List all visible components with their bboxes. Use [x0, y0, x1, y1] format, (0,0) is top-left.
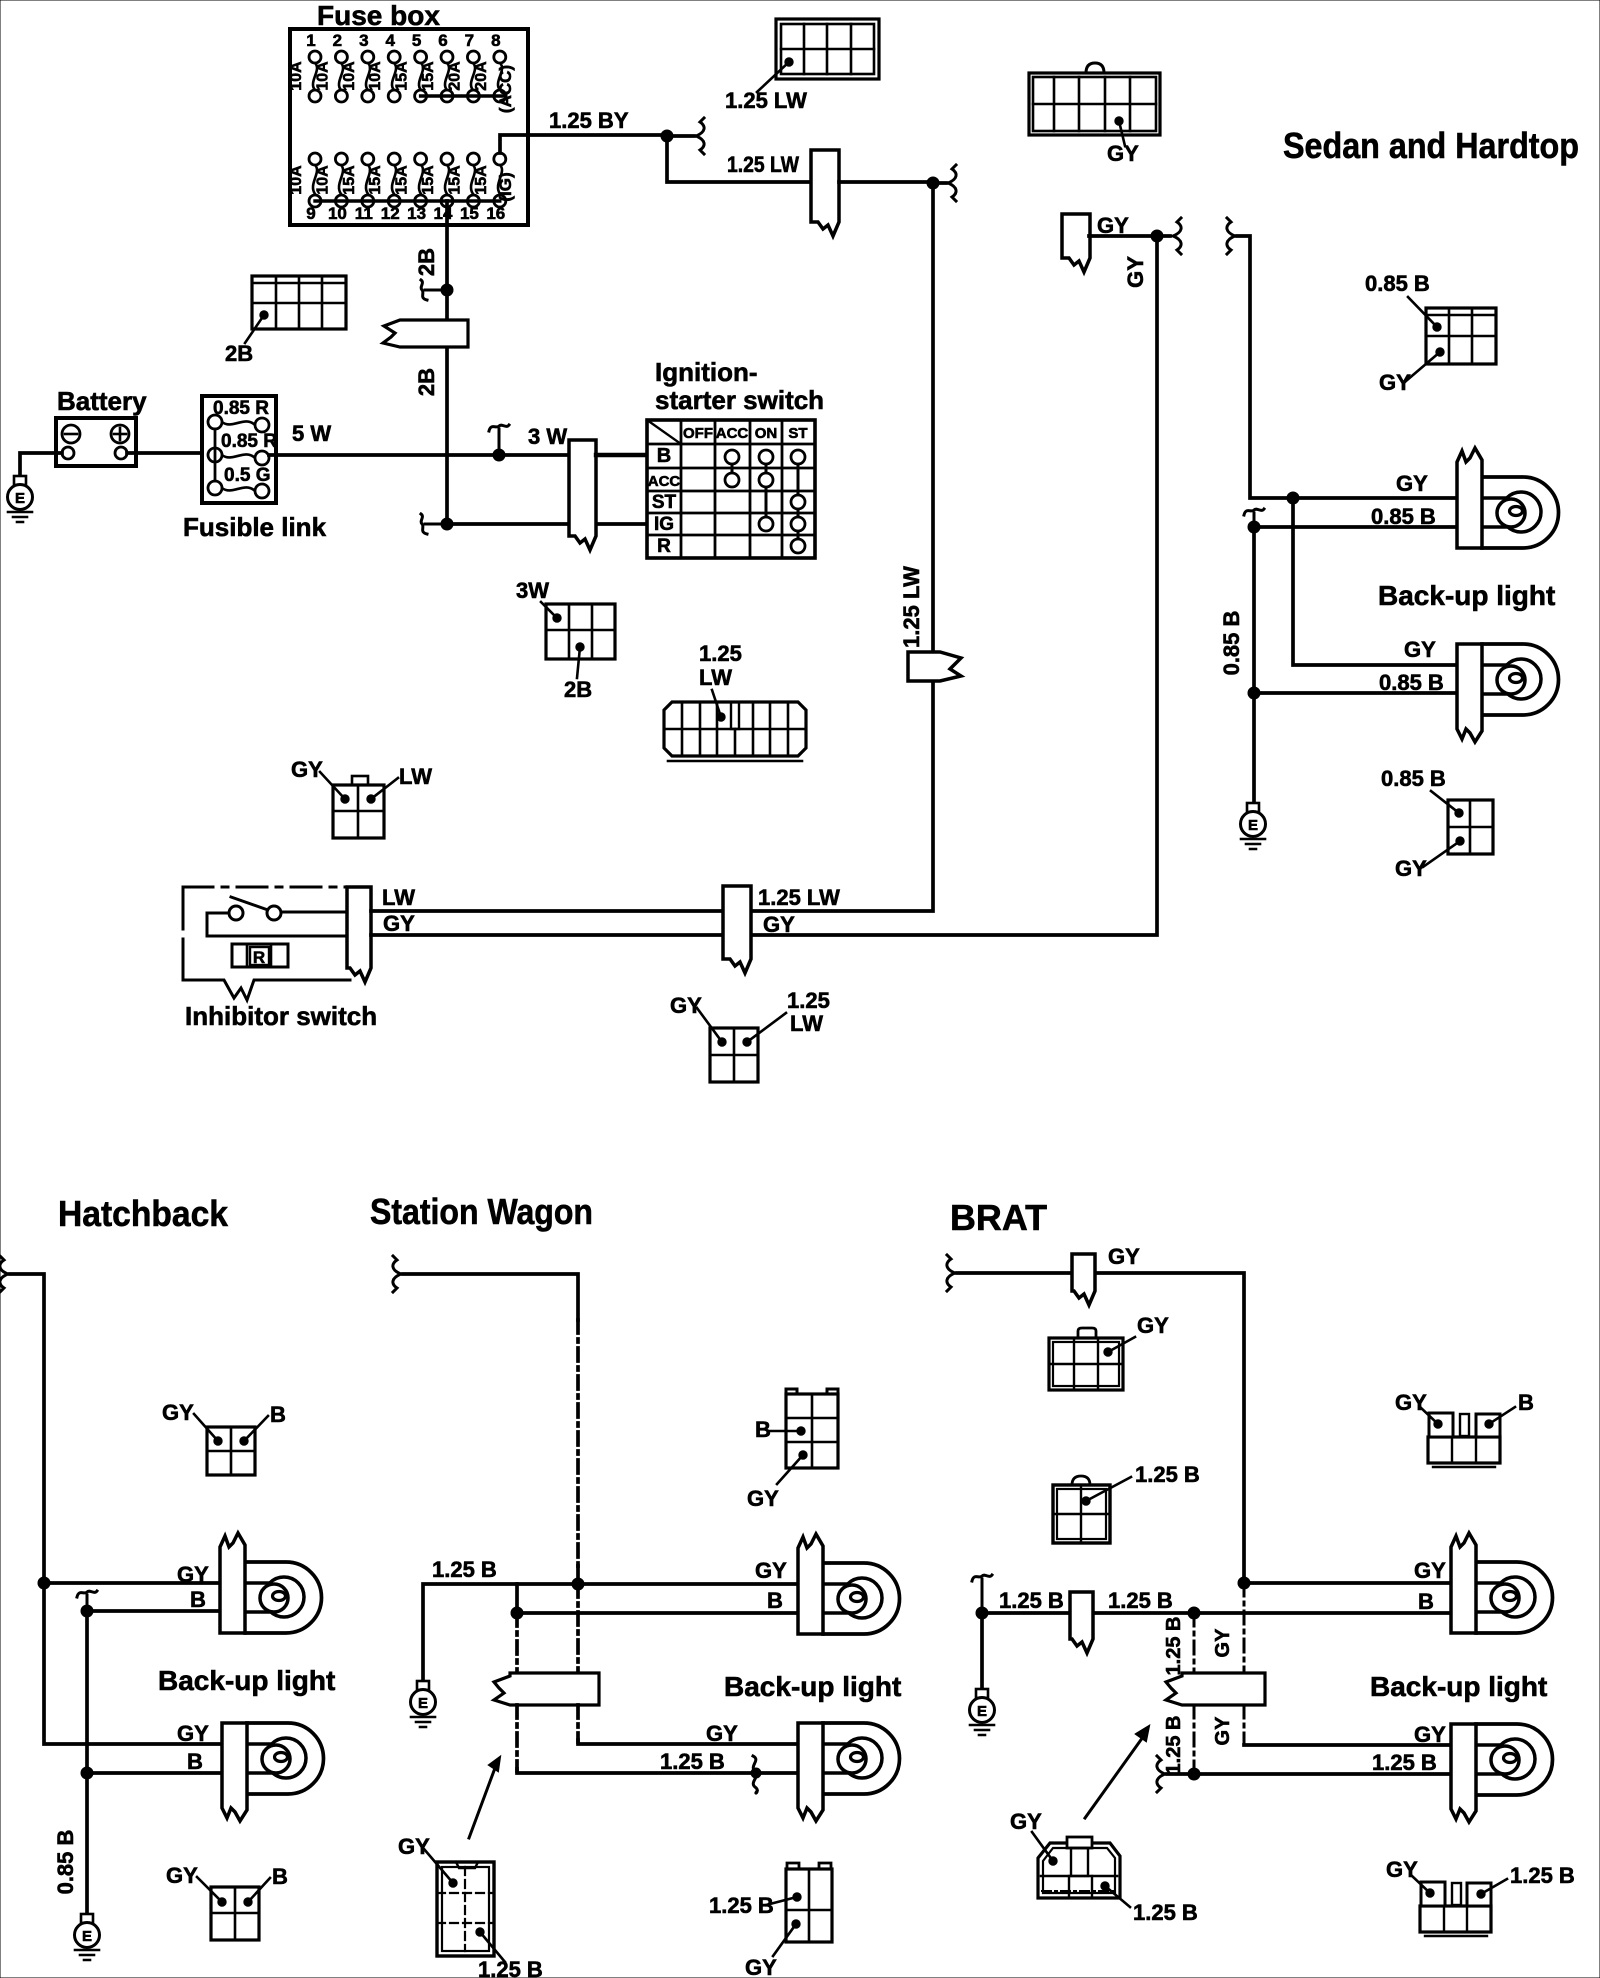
svg-text:Hatchback: Hatchback	[58, 1193, 229, 1234]
wire B to back-up light 1	[87, 1609, 222, 1613]
svg-text:10A: 10A	[367, 61, 384, 91]
svg-text:Back-up light: Back-up light	[1378, 580, 1555, 611]
fuse 10 (10A)	[314, 153, 347, 223]
wire GY to junction	[1089, 234, 1157, 238]
svg-text:10A: 10A	[288, 61, 305, 91]
fuse 12 (15A)	[367, 153, 400, 223]
svg-text:Battery: Battery	[57, 386, 147, 416]
ground E (battery)	[8, 476, 33, 522]
fuse bus (IG fuses 9-16)	[315, 199, 500, 202]
harness end brace	[1173, 218, 1181, 254]
svg-text:GY: GY	[291, 757, 323, 782]
svg-text:1.25 B: 1.25 B	[478, 1957, 543, 1978]
svg-text:GY: GY	[1108, 1244, 1140, 1269]
back-up light bulb 1 (sedan)	[1457, 448, 1559, 548]
svg-text:1.25 B: 1.25 B	[709, 1893, 774, 1918]
svg-text:3W: 3W	[516, 578, 549, 603]
svg-text:2B: 2B	[414, 248, 439, 276]
wire GY below flag to back-up light 2	[576, 1705, 580, 1742]
svg-text:OFF: OFF	[683, 425, 713, 442]
wire 0.85B to ground	[85, 1773, 89, 1914]
svg-text:15A: 15A	[394, 165, 411, 195]
wire 1.25B down (dash-dot)	[1193, 1613, 1196, 1675]
svg-text:1.25 B: 1.25 B	[1133, 1900, 1198, 1925]
connector lamp socket (BRAT lower)	[1038, 1837, 1120, 1898]
connector 2x3 (wagon lower-left)	[437, 1862, 494, 1956]
svg-text:1.25 B: 1.25 B	[1510, 1863, 1575, 1888]
svg-text:15A: 15A	[341, 165, 358, 195]
svg-text:20A: 20A	[446, 61, 463, 91]
wire GY wagon feed lower	[578, 1566, 800, 1584]
connector plug (GY/B BRAT)	[1428, 1413, 1500, 1467]
inhibitor switch R box	[232, 944, 288, 967]
svg-text:GY: GY	[1212, 1628, 1234, 1658]
fuse box outline	[290, 29, 528, 225]
svg-text:B: B	[767, 1588, 783, 1613]
connector 2x3 (wagon bottom-right)	[786, 1863, 832, 1942]
svg-text:GY: GY	[177, 1721, 209, 1746]
svg-text:8: 8	[491, 31, 500, 50]
tap hook at 2B junction	[421, 280, 445, 300]
wire GY sedan feed	[1237, 236, 1459, 498]
harness start brace (BRAT)	[947, 1255, 955, 1291]
fuse 2 (10A)	[314, 31, 347, 102]
wire GY to back-up light 2	[44, 1583, 222, 1744]
connector flag on LW riser (torn right)	[908, 652, 961, 681]
junction 1.25 LW	[927, 177, 939, 189]
wire 2B to ignition switch IG	[447, 522, 649, 526]
wire GY down (dash-dot)	[1243, 1583, 1246, 1675]
junction GY BRAT	[1238, 1577, 1250, 1589]
svg-text:Station Wagon: Station Wagon	[370, 1191, 593, 1232]
svg-text:1.25 LW: 1.25 LW	[727, 152, 799, 177]
harness start brace (hatchback)	[0, 1256, 8, 1292]
connector 2x2 (0.85B/GY sedan lower)	[1448, 800, 1493, 854]
svg-text:6: 6	[438, 31, 447, 50]
svg-text:B: B	[1418, 1589, 1434, 1614]
ground E (wagon)	[411, 1681, 436, 1727]
back-up light bulb 2 (BRAT)	[1451, 1724, 1553, 1822]
svg-text:ST: ST	[788, 425, 807, 442]
svg-text:GY: GY	[1107, 141, 1139, 166]
wire 1.25B to ground	[980, 1613, 984, 1689]
svg-text:15A: 15A	[394, 61, 411, 91]
svg-text:10A: 10A	[314, 61, 331, 91]
svg-text:15A: 15A	[367, 165, 384, 195]
fuse 6 (15A)	[420, 31, 453, 102]
back-up light bulb 1 (BRAT)	[1451, 1533, 1553, 1633]
fuse 4 (10A)	[367, 31, 400, 102]
svg-text:7: 7	[465, 31, 474, 50]
tap hook at 5W junction	[489, 425, 509, 453]
svg-text:GY: GY	[166, 1863, 198, 1888]
svg-text:GY: GY	[1137, 1313, 1169, 1338]
wire GY to back-up light 2	[1293, 498, 1459, 665]
svg-text:1.25 BY: 1.25 BY	[549, 108, 629, 133]
wire 1.25 LW down-right to connector flag	[667, 136, 812, 182]
inhibitor switch contacts	[229, 897, 281, 920]
svg-text:1.25 B: 1.25 B	[1108, 1588, 1173, 1613]
wire GY hatchback feed	[10, 1274, 222, 1583]
harness brace on 1.25B	[1157, 1756, 1165, 1792]
svg-text:B: B	[187, 1749, 203, 1774]
wire stub to harness end	[1157, 234, 1170, 238]
harness start brace (wagon)	[393, 1256, 401, 1292]
svg-text:Fusible link: Fusible link	[183, 512, 327, 542]
svg-text:Back-up light: Back-up light	[158, 1665, 335, 1696]
junction 1.25B lower	[1188, 1768, 1200, 1780]
wire 1.25B below flag	[1193, 1705, 1196, 1774]
svg-text:5 W: 5 W	[292, 421, 331, 446]
svg-text:IG: IG	[654, 514, 674, 535]
connector 3x2 (0.85B/GY sedan)	[1426, 308, 1496, 364]
connector 2x2 (GY/LW)	[333, 776, 384, 838]
junction BY/LW	[661, 130, 673, 142]
wire 2B from fuse 14 down to ignition branch	[445, 201, 449, 524]
svg-text:GY: GY	[1396, 471, 1428, 496]
wire 5 W fusible link to ignition switch	[269, 453, 649, 457]
svg-text:GY: GY	[763, 912, 795, 937]
fuse 15 (15A)	[446, 153, 479, 223]
back-up light bulb 2 (wagon)	[798, 1723, 900, 1821]
svg-text:GY: GY	[1395, 856, 1427, 881]
svg-text:B: B	[272, 1864, 288, 1889]
svg-text:2: 2	[333, 31, 342, 50]
svg-text:2B: 2B	[564, 677, 592, 702]
svg-text:GY: GY	[1212, 1716, 1234, 1746]
fuse 8 (20A)	[473, 31, 506, 102]
svg-text:1.25 B: 1.25 B	[999, 1588, 1064, 1613]
svg-text:GY: GY	[162, 1400, 194, 1425]
inhibitor switch outline	[183, 886, 350, 889]
svg-text:Fuse box: Fuse box	[317, 0, 440, 31]
wire 1.25 BY from fuse 16	[500, 135, 667, 153]
connector flag on 3W/2B (ignition)	[569, 440, 596, 550]
harness end brace	[696, 118, 704, 154]
svg-text:GY: GY	[706, 1721, 738, 1746]
wire GY wagon feed (dash-dot)	[576, 1320, 580, 1568]
svg-text:B: B	[755, 1417, 771, 1442]
svg-text:GY: GY	[747, 1486, 779, 1511]
svg-text:3: 3	[359, 31, 368, 50]
tap hook B hatchback	[77, 1591, 97, 1609]
junction 0.85B lower	[1248, 687, 1260, 699]
svg-text:0.85 R: 0.85 R	[213, 398, 269, 419]
svg-text:GY: GY	[745, 1955, 777, 1978]
svg-text:10A: 10A	[314, 165, 331, 195]
wire 1.25B to back-up light 2	[1167, 1772, 1453, 1776]
back-up light bulb 2 (hatchback)	[222, 1723, 324, 1821]
svg-text:GY: GY	[1010, 1809, 1042, 1834]
svg-text:LW: LW	[382, 885, 415, 910]
wire GY BRAT feed	[957, 1273, 1453, 1583]
tap hook 1.25B BRAT	[972, 1575, 992, 1611]
connector 2x2 (GY/B hatchback)	[207, 1427, 255, 1475]
harness start brace (sedan)	[1227, 218, 1235, 254]
connector 2x2 (GY/1.25LW)	[710, 1028, 758, 1082]
wire B to back-up light 2	[87, 1771, 222, 1775]
fuse 16 (15A)	[473, 153, 506, 223]
svg-text:1.25 B: 1.25 B	[1163, 1716, 1185, 1775]
wire GY inhibitor to GY riser	[371, 236, 1157, 935]
connector plug (GY/1.25B BRAT lower right)	[1420, 1882, 1491, 1936]
svg-text:15A: 15A	[420, 165, 437, 195]
back-up light bulb 2 (sedan)	[1457, 644, 1559, 742]
wire B branch down	[517, 1584, 800, 1613]
svg-text:GY: GY	[1097, 213, 1129, 238]
svg-text:0.85 B: 0.85 B	[1371, 504, 1436, 529]
junction GY wagon	[572, 1578, 584, 1590]
svg-text:15A: 15A	[420, 61, 437, 91]
svg-text:GY: GY	[1123, 256, 1148, 288]
svg-text:Inhibitor switch: Inhibitor switch	[185, 1001, 377, 1031]
wire B down	[85, 1611, 89, 1773]
fuse 9 (10A)	[288, 153, 321, 223]
inhibitor switch wiring	[281, 911, 352, 914]
svg-text:Back-up light: Back-up light	[724, 1671, 901, 1702]
junction B hatchback	[81, 1605, 93, 1617]
connector 3x2 (GY BRAT)	[1049, 1328, 1123, 1390]
svg-text:(ACC): (ACC)	[496, 65, 515, 113]
wire GY below flag to back-up light 2	[1243, 1705, 1246, 1745]
fuse 3 (10A)	[341, 31, 374, 102]
svg-text:GY: GY	[1414, 1722, 1446, 1747]
connector flag on 1.25 LW	[811, 150, 839, 236]
svg-text:Back-up light: Back-up light	[1370, 1671, 1547, 1702]
arrow to lamp socket connector	[1085, 1737, 1143, 1818]
wire B row from flag	[596, 453, 649, 457]
svg-text:GY: GY	[383, 911, 415, 936]
connector flag GY	[1062, 214, 1090, 272]
svg-text:GY: GY	[1395, 1390, 1427, 1415]
svg-text:15A: 15A	[473, 165, 490, 195]
wire stub to harness end	[667, 134, 694, 138]
connector flag on BRAT GY feed	[1072, 1254, 1095, 1305]
svg-text:0.85 B: 0.85 B	[1219, 611, 1244, 676]
svg-text:1: 1	[306, 31, 315, 50]
junction GY	[1151, 230, 1163, 242]
svg-text:1.25 LW: 1.25 LW	[758, 885, 840, 910]
connector flag on 1.25B	[1070, 1592, 1093, 1653]
junction B lower	[81, 1767, 93, 1779]
back-up light bulb 1 (hatchback)	[220, 1533, 322, 1633]
junction GY hatchback	[38, 1577, 50, 1589]
wire 1.25B wagon	[423, 1584, 578, 1681]
connector 3x2 (3W/2B)	[546, 604, 615, 659]
wire B/GY into connector flag (dash-dot)	[515, 1613, 519, 1675]
ignition-starter switch table	[647, 420, 815, 558]
junction 1.25B BRAT	[976, 1607, 988, 1619]
junction B wagon	[511, 1607, 523, 1619]
fuse 1 (10A)	[288, 31, 321, 102]
svg-text:(IG): (IG)	[496, 172, 515, 201]
svg-text:GY: GY	[1414, 1558, 1446, 1583]
svg-text:0.85 B: 0.85 B	[1379, 670, 1444, 695]
fuse 7 (20A)	[446, 31, 479, 102]
wire stub to harness end	[933, 181, 946, 185]
svg-text:0.85 B: 0.85 B	[53, 1830, 78, 1895]
connector flag on 2B (torn left)	[383, 320, 468, 347]
ground E (hatchback)	[75, 1914, 100, 1960]
connector flag on LW/GY pair	[723, 886, 751, 973]
svg-text:LW: LW	[790, 1011, 823, 1036]
connector flag (wagon, torn left)	[494, 1673, 599, 1705]
svg-text:Ignition-: Ignition-	[655, 357, 758, 387]
arrow to connector	[469, 1768, 495, 1838]
svg-text:GY: GY	[670, 993, 702, 1018]
wire LW inhibitor to 1.25LW riser	[371, 183, 933, 911]
svg-text:4: 4	[385, 31, 395, 50]
svg-text:1.25 B: 1.25 B	[432, 1557, 497, 1582]
battery	[56, 418, 136, 466]
back-up light bulb 1 (wagon)	[798, 1534, 900, 1634]
svg-text:0.85 R: 0.85 R	[221, 431, 277, 452]
svg-text:starter switch: starter switch	[655, 385, 824, 415]
svg-text:R: R	[253, 948, 265, 967]
tap hook 0.85B	[1244, 509, 1264, 525]
svg-text:ON: ON	[755, 425, 778, 442]
wire 1.25 LW to junction	[839, 180, 933, 184]
svg-text:0.85 B: 0.85 B	[1365, 271, 1430, 296]
ground E (BRAT)	[970, 1689, 995, 1735]
wire battery positive to fusible link	[127, 451, 203, 455]
svg-text:1.25 LW: 1.25 LW	[725, 88, 807, 113]
svg-text:LW: LW	[399, 764, 432, 789]
svg-text:GY: GY	[1379, 370, 1411, 395]
connector 5x2 (GY)	[1029, 63, 1160, 135]
svg-text:GY: GY	[1404, 637, 1436, 662]
svg-text:1.25 B: 1.25 B	[1372, 1750, 1437, 1775]
svg-text:3 W: 3 W	[528, 424, 567, 449]
junction 2B upper	[441, 284, 453, 296]
svg-text:1.25: 1.25	[699, 641, 742, 666]
svg-text:GY: GY	[398, 1834, 430, 1859]
fusible link	[202, 396, 277, 503]
svg-text:1.25 B: 1.25 B	[660, 1749, 725, 1774]
svg-text:1.25 LW: 1.25 LW	[899, 566, 924, 648]
junction GY sedan	[1287, 492, 1299, 504]
svg-text:B: B	[270, 1402, 286, 1427]
svg-text:2B: 2B	[414, 368, 439, 396]
svg-text:R: R	[657, 536, 671, 557]
connector flag on inhibitor switch	[347, 887, 371, 982]
svg-text:GY: GY	[755, 1558, 787, 1583]
connector 8x2 (1.25 LW)	[664, 702, 806, 761]
junction 0.85B	[1248, 521, 1260, 533]
wire battery negative to ground	[20, 453, 62, 476]
harness end brace	[948, 165, 956, 201]
splice on 1.25B	[753, 1756, 757, 1793]
fuse 5 (15A)	[394, 31, 427, 102]
svg-text:20A: 20A	[473, 61, 490, 91]
junction 2B to ignition IG	[441, 518, 453, 530]
connector 4x2 (2B)	[252, 276, 346, 329]
fuse 14 (15A)	[420, 153, 453, 223]
wire 0.85B down	[1252, 527, 1256, 693]
fuse 11 (15A)	[341, 153, 374, 223]
fuse 13 (15A)	[394, 153, 427, 223]
connector 2x2 (1.25B BRAT)	[1053, 1476, 1110, 1543]
junction 1.25B mid	[1188, 1607, 1200, 1619]
svg-text:0.85 B: 0.85 B	[1381, 766, 1446, 791]
wire 1.25B below flag to back-up light 2	[515, 1705, 519, 1771]
wire 0.85B to ground	[1252, 693, 1256, 803]
connector 4x2 (1.25 LW)	[776, 19, 879, 79]
wire 0.85B to back-up light 2	[1254, 691, 1459, 695]
connector flag (BRAT, torn left)	[1166, 1673, 1265, 1705]
wire 1.25B to back-up light 1	[982, 1611, 1453, 1615]
svg-text:10A: 10A	[288, 165, 305, 195]
svg-text:B: B	[190, 1587, 206, 1612]
svg-text:10A: 10A	[341, 61, 358, 91]
svg-text:2B: 2B	[225, 341, 253, 366]
svg-text:ACC: ACC	[648, 473, 681, 490]
svg-text:Sedan and Hardtop: Sedan and Hardtop	[1283, 125, 1579, 166]
connector 2x3 (wagon B/GY)	[786, 1389, 838, 1468]
svg-text:5: 5	[412, 31, 421, 50]
svg-text:1.25: 1.25	[787, 988, 830, 1013]
ground E (sedan)	[1241, 803, 1266, 849]
fuse bus (ACC fuses 5-8)	[421, 94, 506, 97]
junction 5W/3W	[493, 449, 505, 461]
wire 0.85B to back-up light 1	[1254, 525, 1459, 529]
svg-text:B: B	[1518, 1390, 1534, 1415]
svg-text:BRAT: BRAT	[950, 1197, 1047, 1238]
svg-text:ACC: ACC	[716, 425, 749, 442]
svg-text:1.25 B: 1.25 B	[1135, 1462, 1200, 1487]
tap hook at lower 2B junction	[421, 514, 445, 534]
svg-text:LW: LW	[699, 665, 732, 690]
svg-text:15A: 15A	[446, 165, 463, 195]
wire GY wagon feed	[403, 1274, 578, 1320]
svg-text:ST: ST	[652, 492, 677, 513]
svg-text:B: B	[657, 445, 671, 467]
svg-text:GY: GY	[177, 1562, 209, 1587]
svg-text:1.25 B: 1.25 B	[1163, 1617, 1185, 1676]
connector 2x2 (GY/B hatchback lower)	[211, 1887, 259, 1940]
